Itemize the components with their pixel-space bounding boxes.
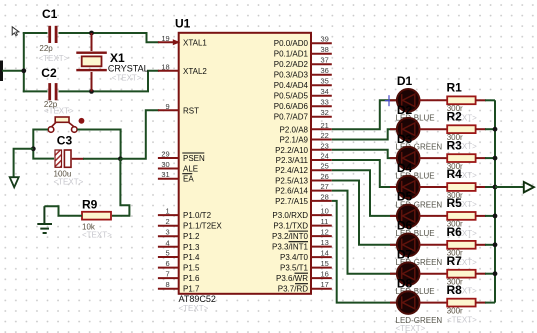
svg-text:P0.5/AD5: P0.5/AD5: [274, 92, 309, 101]
wire P2.2 to LED D3: [332, 150, 397, 158]
svg-text:18: 18: [161, 62, 169, 71]
pin XTAL1 input arrow: [173, 39, 180, 45]
svg-text:P2.1/A9: P2.1/A9: [280, 136, 309, 145]
resistor R3: [447, 154, 475, 162]
pin 23 P2.2/A10 (right): [275, 141, 332, 155]
LED D7: [390, 262, 420, 285]
wire R5 to bus: [476, 215, 486, 217]
pin 38 P0.1/AD1 (right): [274, 45, 332, 59]
junction button/ground branch: [31, 146, 36, 151]
pin 7 P1.6 (left): [158, 270, 200, 284]
pin 39 P0.0/AD0 (right): [274, 35, 332, 49]
svg-text:P3.4/T0: P3.4/T0: [280, 253, 309, 262]
svg-text:32: 32: [321, 108, 329, 117]
ground (earth symbol at R9): [37, 206, 52, 233]
pin 14 P3.4/T0 (right): [280, 249, 332, 263]
svg-text:P1.5: P1.5: [183, 264, 200, 273]
svg-text:P2.2/A10: P2.2/A10: [275, 146, 308, 155]
crystal X1: [76, 52, 107, 72]
svg-text:24: 24: [321, 151, 329, 160]
pin 21 P2.0/A8 (right): [280, 121, 332, 135]
svg-text:P1.3: P1.3: [183, 243, 200, 252]
svg-text:<TEXT>: <TEXT>: [447, 316, 477, 325]
pin 25 P2.4/A12 (right): [275, 162, 332, 176]
svg-text:4: 4: [166, 238, 170, 247]
svg-text:<TEXT>: <TEXT>: [54, 178, 84, 187]
svg-text:R4: R4: [447, 167, 463, 181]
svg-text:PSEN: PSEN: [183, 154, 205, 163]
svg-text:P3.6/WR: P3.6/WR: [276, 274, 308, 283]
pin 9 RST (left): [158, 102, 199, 116]
svg-text:<TEXT>: <TEXT>: [179, 304, 209, 313]
pin 19 XTAL1 (left): [158, 34, 208, 48]
wire P2.7 to LED D8: [332, 201, 397, 303]
pin 3 P1.2 (left): [158, 228, 200, 242]
svg-text:8: 8: [166, 280, 170, 289]
wire LED D5 to R5: [420, 215, 448, 217]
pin 34 P0.5/AD5 (right): [274, 87, 332, 101]
svg-text:AT89C52: AT89C52: [179, 294, 216, 304]
svg-text:P2.5/A13: P2.5/A13: [275, 176, 308, 185]
pin 33 P0.6/AD6 (right): [274, 98, 332, 112]
svg-text:EA: EA: [183, 175, 194, 184]
svg-text:D6: D6: [397, 219, 413, 233]
svg-text:35: 35: [321, 77, 329, 86]
capacitor C3: [55, 150, 71, 167]
pin 6 P1.5 (left): [158, 259, 200, 273]
svg-text:28: 28: [321, 192, 329, 201]
svg-text:P0.6/AD6: P0.6/AD6: [274, 102, 309, 111]
pin 15 P3.5/T1 (right): [280, 259, 332, 273]
svg-text:P2.6/A14: P2.6/A14: [275, 187, 308, 196]
capacitor C2: [48, 83, 57, 100]
wire button to C3 left: [33, 130, 54, 159]
svg-text:P1.6: P1.6: [183, 274, 200, 283]
junction bus R5: [493, 214, 498, 219]
svg-text:R1: R1: [447, 81, 463, 95]
svg-text:6: 6: [166, 259, 170, 268]
junction bus R4: [493, 185, 498, 190]
svg-text:U1: U1: [175, 17, 191, 31]
wire LED D4 to R4: [420, 186, 448, 188]
wire R4 to bus: [476, 186, 486, 188]
svg-text:9: 9: [166, 102, 170, 111]
junction node XTAL2/C2/X1: [89, 89, 94, 94]
resistor R8: [447, 299, 475, 307]
capacitor C1: [48, 26, 57, 43]
wire R7 to bus: [476, 273, 486, 275]
wire X1 top pin: [91, 33, 93, 51]
svg-text:P0.7/AD7: P0.7/AD7: [274, 113, 309, 122]
svg-text:P2.0/A8: P2.0/A8: [280, 125, 309, 134]
ground (arrow symbol): [10, 177, 19, 187]
wire P2.3 to LED D4: [332, 160, 397, 187]
svg-text:33: 33: [321, 98, 329, 107]
svg-text:11: 11: [321, 217, 329, 226]
svg-text:3: 3: [166, 228, 170, 237]
svg-text:1: 1: [166, 207, 170, 216]
LED D4: [390, 176, 420, 199]
wire C3 right pin: [72, 158, 84, 160]
svg-text:D2: D2: [397, 103, 413, 117]
svg-text:P0.4/AD4: P0.4/AD4: [274, 81, 309, 90]
pin 36 P0.3/AD3 (right): [274, 66, 332, 80]
pin 30 ALE (left): [158, 160, 198, 174]
wire X1 bottom pin: [91, 72, 93, 91]
wire vertical bus (R1-R8 common): [494, 100, 496, 302]
wire P2.1 to LED D2: [332, 129, 397, 139]
LED D6: [390, 234, 420, 257]
svg-text:ALE: ALE: [183, 165, 198, 174]
wire R1 to bus: [476, 99, 486, 101]
pin 27 P2.6/A14 (right): [275, 182, 332, 196]
svg-text:13: 13: [321, 238, 329, 247]
svg-text:RST: RST: [183, 106, 199, 115]
svg-text:CRYSTAL: CRYSTAL: [108, 63, 149, 73]
svg-text:<TEXT>: <TEXT>: [112, 74, 142, 83]
resistor R2: [447, 125, 475, 133]
pin 18 XTAL2 (left): [158, 62, 208, 76]
pin 29 PSEN (left): [158, 150, 205, 164]
pin 11 P3.1/TXD (right): [273, 217, 331, 231]
svg-text:5: 5: [166, 249, 170, 258]
junction rail/terminal: [21, 68, 26, 73]
svg-text:R9: R9: [82, 197, 98, 211]
svg-text:<TEXT>: <TEXT>: [44, 107, 74, 116]
svg-text:22: 22: [321, 131, 329, 140]
svg-text:R5: R5: [447, 196, 463, 210]
junction node XTAL1/C1/X1: [89, 31, 94, 36]
svg-text:2: 2: [166, 217, 170, 226]
resistor R9: [82, 212, 111, 220]
pin 12 P3.2/INT0 (right): [272, 228, 332, 242]
pin 26 P2.5/A13 (right): [275, 172, 332, 186]
wire LED D3 to R3: [420, 157, 448, 159]
pin 13 P3.3/INT1 (right): [272, 238, 332, 252]
LED D5: [390, 205, 420, 228]
push button switch: [48, 117, 84, 132]
svg-text:P3.3/INT1: P3.3/INT1: [272, 243, 309, 252]
pin 2 P1.1/T2EX (left): [158, 217, 222, 231]
svg-text:34: 34: [321, 87, 329, 96]
svg-text:26: 26: [321, 172, 329, 181]
svg-text:R6: R6: [447, 225, 463, 239]
svg-text:P3.0/RXD: P3.0/RXD: [272, 211, 308, 220]
pin 17 P3.7/RD (right): [278, 280, 332, 294]
svg-text:16: 16: [321, 270, 329, 279]
svg-text:38: 38: [321, 45, 329, 54]
svg-text:P1.0/T2: P1.0/T2: [183, 211, 212, 220]
wire LED D2 to R2: [420, 128, 448, 130]
svg-text:P2.3/A11: P2.3/A11: [276, 156, 309, 165]
svg-text:D4: D4: [397, 161, 413, 175]
svg-text:XTAL1: XTAL1: [183, 38, 207, 47]
resistor R5: [447, 212, 475, 220]
svg-text:<TEXT>: <TEXT>: [82, 231, 112, 240]
svg-text:XTAL2: XTAL2: [183, 67, 207, 76]
ground terminal (cropped at left edge): [0, 61, 3, 82]
svg-text:D3: D3: [397, 132, 413, 146]
wire R8 to bus: [476, 302, 486, 304]
pin 37 P0.2/AD2 (right): [274, 56, 332, 69]
svg-text:300r: 300r: [447, 306, 463, 315]
wire LED D6 to R6: [420, 244, 448, 246]
wire P2.6 to LED D7: [332, 191, 397, 274]
wire left rail: [23, 32, 25, 92]
mouse cursor: [12, 27, 19, 36]
wire terminal to rail: [2, 70, 24, 72]
svg-text:D5: D5: [397, 190, 413, 204]
pin 28 P2.7/A15 (right): [275, 192, 332, 206]
wire junction to RST pin: [120, 110, 158, 159]
pin 35 P0.4/AD4 (right): [274, 77, 332, 91]
pin 1 P1.0/T2 (left): [158, 207, 212, 221]
svg-text:P2.7/A15: P2.7/A15: [275, 197, 308, 206]
svg-text:R3: R3: [447, 138, 463, 152]
wire P2.4 to LED D5: [332, 170, 397, 216]
svg-text:P0.1/AD1: P0.1/AD1: [274, 50, 309, 59]
svg-text:R2: R2: [447, 109, 463, 123]
svg-text:P1.4: P1.4: [183, 253, 200, 262]
pin 5 P1.4 (left): [158, 249, 200, 263]
svg-text:7: 7: [166, 270, 170, 279]
resistor R6: [447, 241, 475, 249]
LED D8: [390, 291, 420, 314]
LED D3: [390, 147, 420, 170]
wire button to RST node: [77, 130, 120, 159]
pin 31 EA (left): [158, 170, 194, 184]
junction RST node: [118, 156, 123, 161]
svg-text:25: 25: [321, 162, 329, 171]
resistor R1: [447, 96, 475, 104]
wire R2 to bus: [476, 128, 486, 130]
svg-text:P0.0/AD0: P0.0/AD0: [274, 39, 309, 48]
resistor R7: [447, 270, 475, 278]
svg-text:29: 29: [161, 150, 169, 159]
svg-text:15: 15: [321, 259, 329, 268]
wire rail to C2: [23, 90, 48, 92]
wire bus to output arrow: [495, 186, 524, 188]
wire C1 to XTAL1: [59, 33, 159, 42]
output arrow (net pointer): [524, 182, 534, 193]
svg-text:P3.5/T1: P3.5/T1: [280, 264, 309, 273]
svg-text:P0.3/AD3: P0.3/AD3: [274, 71, 309, 80]
wire P2.0 to LED D1: [332, 100, 397, 129]
pin 32 P0.7/AD7 (right): [274, 108, 332, 122]
svg-text:39: 39: [321, 35, 329, 44]
svg-text:14: 14: [321, 249, 329, 258]
svg-text:23: 23: [321, 141, 329, 150]
wire rail to C1: [23, 32, 48, 34]
svg-text:<TEXT>: <TEXT>: [396, 324, 426, 333]
svg-text:30: 30: [161, 160, 169, 169]
svg-text:P1.2: P1.2: [183, 232, 200, 241]
svg-text:22p: 22p: [39, 44, 53, 53]
svg-text:P3.7/RD: P3.7/RD: [278, 285, 308, 294]
svg-text:P0.2/AD2: P0.2/AD2: [274, 60, 309, 69]
junction bus R6: [493, 242, 498, 247]
svg-text:D7: D7: [397, 248, 413, 262]
wire R9 left pin: [44, 206, 82, 216]
wire C2 to XTAL2: [59, 71, 159, 92]
svg-text:C1: C1: [42, 7, 58, 21]
wire P2.5 to LED D6: [332, 180, 397, 244]
svg-text:27: 27: [321, 182, 329, 191]
svg-text:R7: R7: [447, 254, 463, 268]
LED D2: [390, 118, 420, 141]
svg-text:19: 19: [161, 34, 169, 43]
svg-text:P2.4/A12: P2.4/A12: [275, 166, 308, 175]
svg-text:12: 12: [321, 228, 329, 237]
svg-text:C2: C2: [41, 66, 57, 80]
pin 10 P3.0/RXD (right): [272, 207, 331, 221]
node marker (blue cross) at D1 anode: [385, 95, 393, 106]
wire to ground arrow: [14, 149, 34, 177]
junction bus R2: [493, 127, 498, 132]
pin 4 P1.3 (left): [158, 238, 200, 252]
wire R6 to bus: [476, 244, 486, 246]
wire junction to R9: [112, 159, 129, 216]
svg-text:<TEXT>: <TEXT>: [39, 54, 69, 63]
wire R3 to bus: [476, 157, 486, 159]
wire LED D1 to R1: [420, 99, 448, 101]
svg-text:P3.2/INT0: P3.2/INT0: [272, 232, 309, 241]
resistor R4: [447, 183, 475, 191]
svg-text:31: 31: [161, 170, 169, 179]
svg-text:P1.1/T2EX: P1.1/T2EX: [183, 222, 222, 231]
svg-text:P3.1/TXD: P3.1/TXD: [273, 222, 308, 231]
IC U1 AT89C52 body: [179, 33, 311, 294]
LED D1: [390, 89, 420, 112]
junction bus R7: [493, 271, 498, 276]
svg-text:17: 17: [321, 280, 329, 289]
svg-text:36: 36: [321, 66, 329, 75]
svg-text:C3: C3: [57, 134, 73, 148]
svg-text:21: 21: [321, 121, 329, 130]
wire C3 to junction: [83, 158, 120, 160]
junction bus R3: [493, 156, 498, 161]
pin 22 P2.1/A9 (right): [280, 131, 332, 145]
svg-text:37: 37: [321, 56, 329, 65]
pin 24 P2.3/A11 (right): [276, 151, 332, 165]
wire LED D8 to R8: [420, 302, 448, 304]
svg-text:10: 10: [321, 207, 329, 216]
svg-text:R8: R8: [447, 283, 463, 297]
pin 16 P3.6/WR (right): [276, 270, 332, 284]
pin 8 P1.7 (left): [158, 280, 200, 294]
wire LED D7 to R7: [420, 273, 448, 275]
svg-text:D1: D1: [397, 74, 413, 88]
svg-text:D8: D8: [397, 276, 413, 290]
svg-text:P1.7: P1.7: [183, 285, 200, 294]
